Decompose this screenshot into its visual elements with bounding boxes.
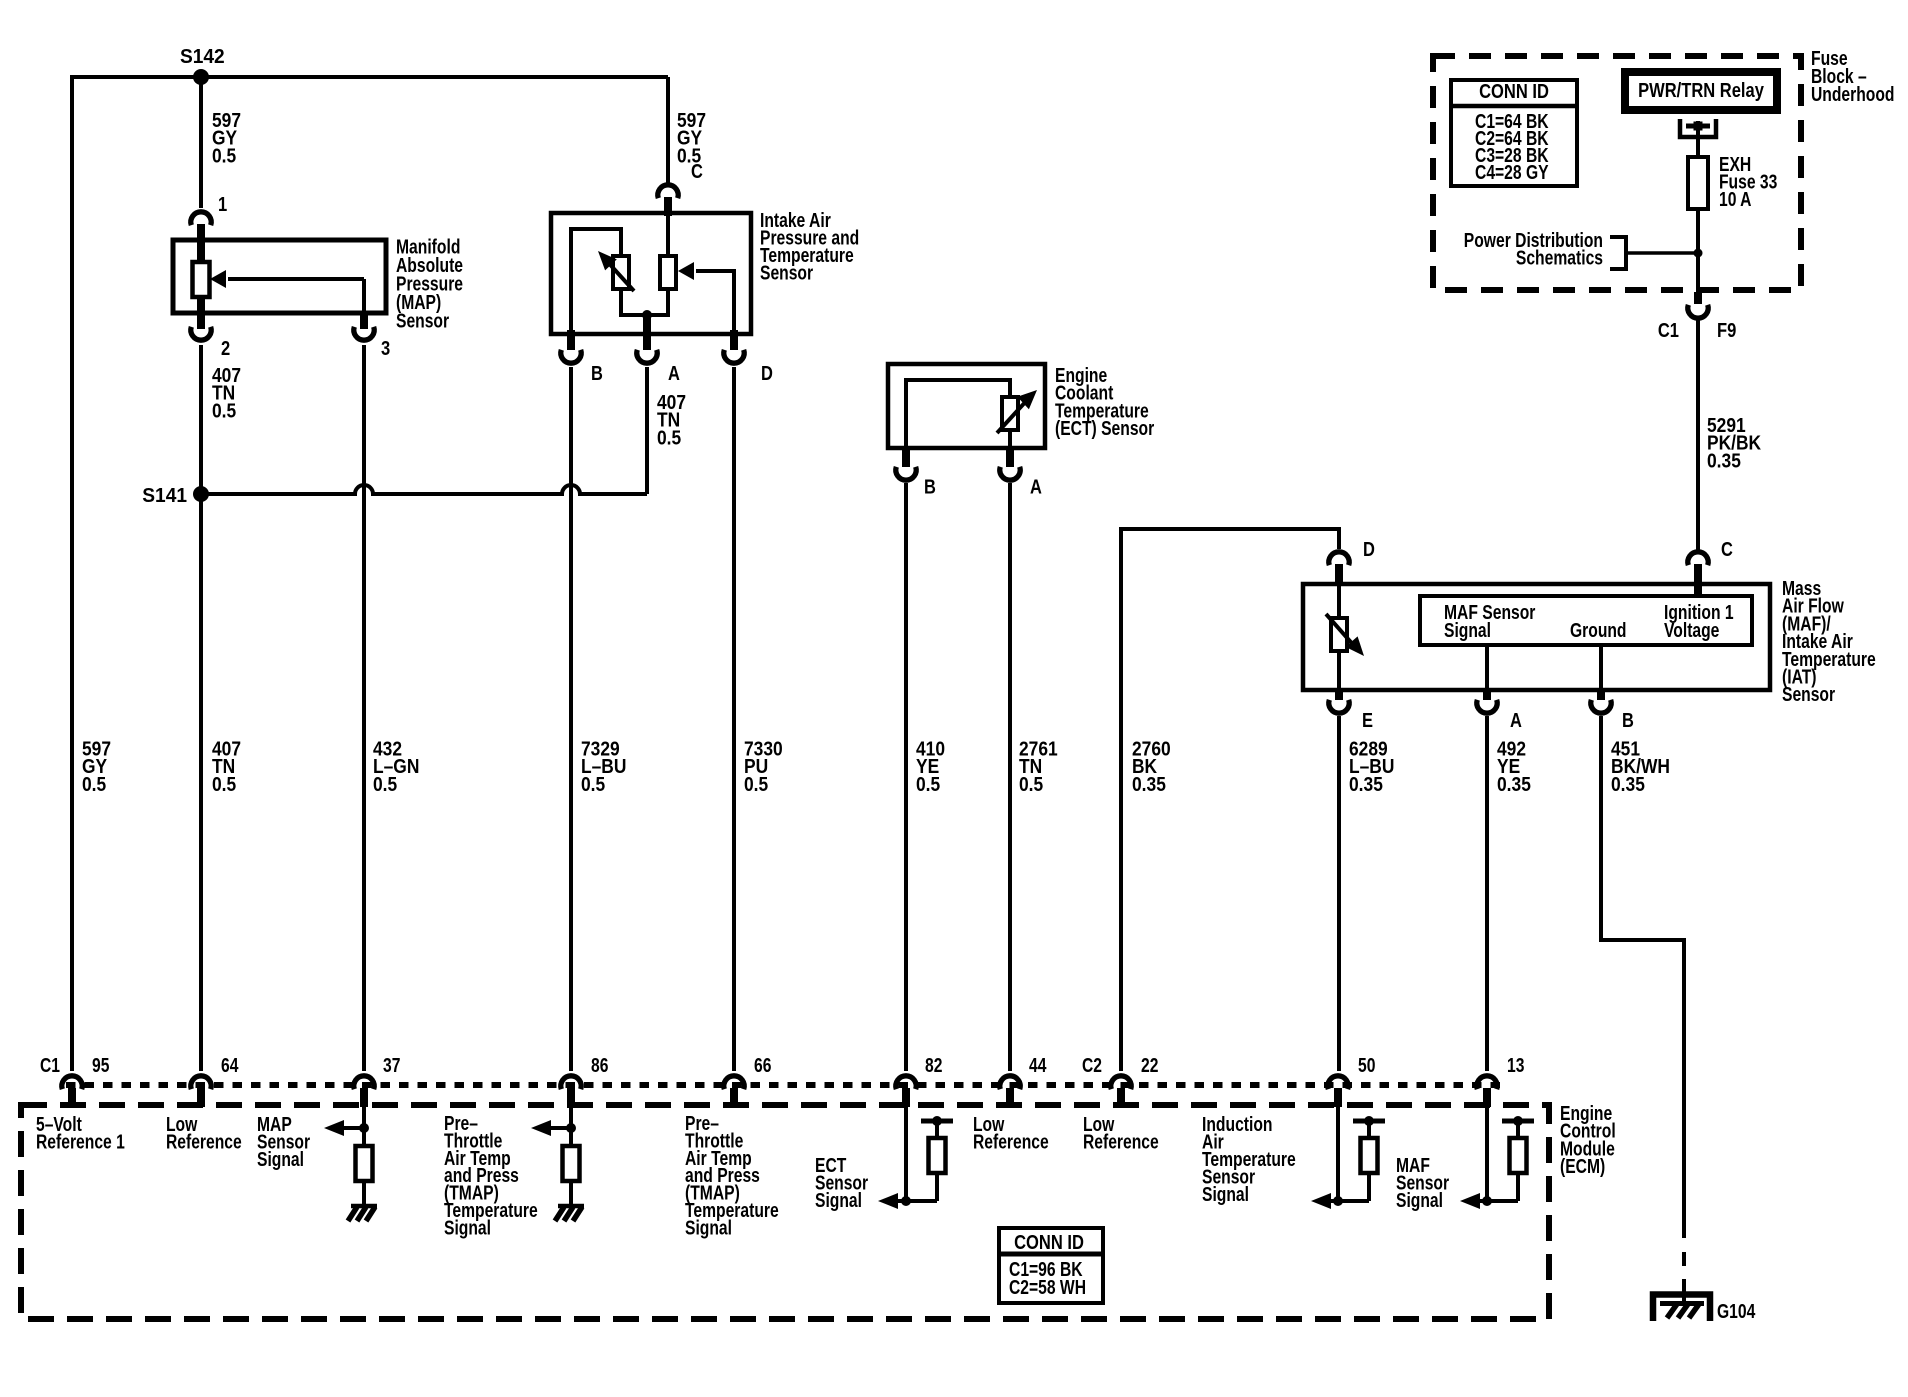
svg-text:D: D (761, 363, 773, 385)
svg-text:0.35: 0.35 (1707, 450, 1741, 472)
svg-text:Sensor: Sensor (396, 311, 449, 333)
svg-text:0.5: 0.5 (212, 145, 236, 167)
svg-text:A: A (1030, 477, 1042, 499)
svg-text:B: B (591, 363, 603, 385)
svg-text:0.5: 0.5 (212, 774, 236, 796)
svg-text:0.35: 0.35 (1349, 774, 1383, 796)
svg-text:C1: C1 (40, 1055, 60, 1077)
svg-text:B: B (1622, 710, 1634, 732)
svg-text:0.5: 0.5 (1019, 774, 1043, 796)
svg-text:Sensor: Sensor (760, 263, 813, 285)
svg-text:Sensor: Sensor (1782, 684, 1835, 706)
svg-text:F9: F9 (1717, 320, 1736, 342)
svg-text:3: 3 (381, 338, 390, 360)
svg-text:0.35: 0.35 (1132, 774, 1166, 796)
svg-text:64: 64 (221, 1055, 239, 1077)
svg-text:E: E (1362, 710, 1373, 732)
svg-text:Signal: Signal (815, 1190, 862, 1212)
svg-text:Signal: Signal (1396, 1190, 1443, 1212)
svg-text:13: 13 (1507, 1055, 1524, 1077)
svg-text:CONN ID: CONN ID (1014, 1232, 1084, 1254)
svg-text:D: D (1363, 539, 1375, 561)
svg-text:G104: G104 (1717, 1301, 1756, 1323)
svg-text:Reference 1: Reference 1 (36, 1132, 125, 1154)
svg-text:Signal: Signal (685, 1217, 732, 1239)
svg-text:0.35: 0.35 (1497, 774, 1531, 796)
svg-text:C: C (691, 161, 703, 183)
svg-text:CONN ID: CONN ID (1479, 81, 1549, 103)
svg-text:C1: C1 (1658, 320, 1679, 342)
svg-text:0.5: 0.5 (744, 774, 768, 796)
svg-text:Signal: Signal (1202, 1184, 1249, 1206)
svg-text:C2=58 WH: C2=58 WH (1009, 1277, 1086, 1299)
svg-text:0.5: 0.5 (373, 774, 397, 796)
svg-text:Signal: Signal (444, 1217, 491, 1239)
svg-text:0.35: 0.35 (1611, 774, 1645, 796)
svg-text:A: A (668, 363, 680, 385)
svg-text:Schematics: Schematics (1516, 248, 1603, 270)
svg-text:Underhood: Underhood (1811, 84, 1895, 106)
svg-text:C4=28 GY: C4=28 GY (1475, 162, 1549, 184)
svg-text:(ECT) Sensor: (ECT) Sensor (1055, 418, 1154, 440)
svg-text:C: C (1721, 539, 1733, 561)
svg-text:Reference: Reference (1083, 1132, 1159, 1154)
svg-text:86: 86 (591, 1055, 608, 1077)
svg-text:0.5: 0.5 (82, 774, 106, 796)
svg-text:Reference: Reference (973, 1132, 1049, 1154)
svg-text:0.5: 0.5 (212, 400, 236, 422)
svg-text:S142: S142 (180, 46, 225, 68)
svg-text:(ECM): (ECM) (1560, 1156, 1605, 1178)
svg-text:22: 22 (1141, 1055, 1158, 1077)
svg-text:0.5: 0.5 (581, 774, 605, 796)
svg-text:82: 82 (925, 1055, 942, 1077)
svg-text:S141: S141 (142, 485, 187, 507)
svg-text:44: 44 (1029, 1055, 1047, 1077)
svg-text:0.5: 0.5 (657, 427, 681, 449)
svg-text:A: A (1510, 710, 1522, 732)
svg-text:50: 50 (1358, 1055, 1375, 1077)
svg-text:Ground: Ground (1570, 620, 1627, 642)
svg-text:37: 37 (383, 1055, 400, 1077)
svg-text:95: 95 (92, 1055, 109, 1077)
svg-text:B: B (924, 477, 936, 499)
svg-text:66: 66 (754, 1055, 771, 1077)
svg-text:1: 1 (218, 194, 227, 216)
svg-text:Reference: Reference (166, 1132, 242, 1154)
svg-text:0.5: 0.5 (916, 774, 940, 796)
svg-text:C2: C2 (1082, 1055, 1102, 1077)
svg-text:Voltage: Voltage (1664, 620, 1719, 642)
svg-text:Signal: Signal (257, 1149, 304, 1171)
svg-text:10 A: 10 A (1719, 189, 1752, 211)
svg-text:PWR/TRN Relay: PWR/TRN Relay (1638, 80, 1765, 102)
svg-text:Signal: Signal (1444, 620, 1491, 642)
svg-text:2: 2 (221, 338, 230, 360)
